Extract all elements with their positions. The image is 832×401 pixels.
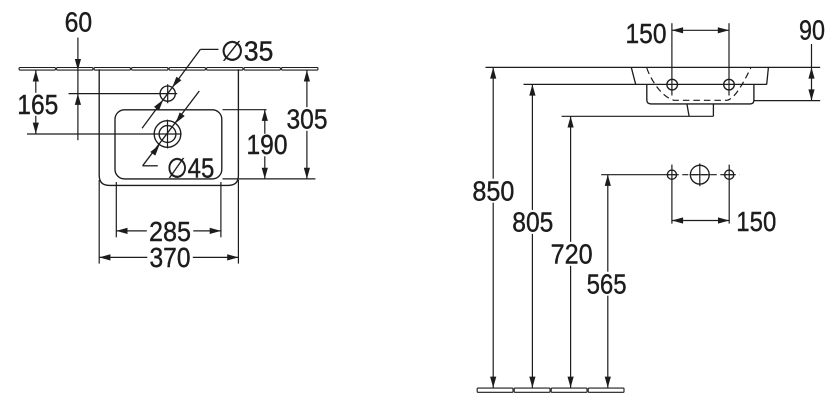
faucet hole center lines — [69, 93, 178, 95]
basin back face (side view) — [767, 67, 769, 84]
svg-text:850: 850 — [472, 176, 514, 207]
fixing hole right (side view) — [724, 79, 735, 90]
extension line for 90 (body bottom rear) — [754, 100, 820, 102]
extension line for 720 — [562, 115, 714, 117]
extension lines for dim 150 top — [671, 23, 673, 95]
dimension 565 — [607, 175, 609, 388]
washbasin outer outline (top view) — [99, 69, 238, 185]
extension line for 565 — [601, 174, 663, 176]
hidden bowl contour (dashed, side view) — [647, 68, 751, 100]
mounting holes group center line (dashed) — [663, 174, 739, 176]
svg-text:370: 370 — [150, 242, 191, 273]
dimension 190 (bowl depth) — [264, 110, 266, 179]
drain hole center lines — [27, 133, 182, 135]
faucet hole circle (top view) — [160, 86, 175, 101]
svg-text:305: 305 — [287, 104, 328, 135]
mounting hole right (front view) — [725, 170, 734, 179]
extension line bowl bottom for dims 190/305 — [223, 178, 316, 180]
svg-text:60: 60 — [65, 7, 93, 38]
basin body outline (side view) — [647, 84, 754, 104]
dimension 850 (rim height over floor) — [492, 67, 494, 387]
dimension 285 (bowl width) — [116, 230, 221, 232]
fixing hole left (side view) — [667, 79, 678, 90]
floor section line (tiled floor, side view) — [477, 388, 624, 392]
extension lines for dim 370 — [98, 180, 100, 264]
dimension 720 — [570, 116, 572, 388]
svg-text:190: 190 — [247, 129, 288, 160]
svg-text:805: 805 — [512, 207, 553, 238]
inner bowl outline (top view) — [115, 110, 222, 179]
dimension leader diameter 35 — [200, 48, 218, 50]
dimension leader diameter 45 — [143, 91, 200, 166]
svg-text:165: 165 — [17, 89, 58, 120]
basin front face (side view) — [631, 67, 635, 84]
dimension 150 (fixing holes distance, side view) — [672, 29, 729, 31]
mounting hole left (front view) — [667, 170, 676, 179]
dimension 165 (wall to drain center) — [35, 70, 37, 134]
svg-text:90: 90 — [799, 15, 825, 46]
dimension 150 (mounting holes distance, front view) — [672, 220, 729, 222]
extension lines for dim 150 bottom — [671, 165, 673, 224]
dimension 305 (total depth) — [306, 70, 308, 179]
svg-text:150: 150 — [736, 206, 776, 237]
extension line bowl top for dim 190 — [223, 109, 267, 111]
rim underside line / extension for 805 — [524, 83, 767, 85]
drain hole circles (top view) — [154, 121, 181, 148]
extension lines for dim 285 — [115, 182, 117, 237]
siphon cover (side view) — [687, 104, 689, 116]
wall section line (tiled wall, top view) — [19, 68, 318, 71]
drain center circle (front view) — [690, 165, 709, 184]
svg-text:720: 720 — [551, 239, 593, 270]
svg-text:565: 565 — [587, 268, 627, 299]
dimension 805 — [531, 84, 533, 387]
svg-text:∅35: ∅35 — [221, 36, 273, 67]
dimension 60 (wall to faucet hole) — [77, 38, 79, 141]
dimension 90 (rim height) — [811, 44, 813, 101]
rim top line (side view) / extension for 850 and 90 — [486, 66, 821, 68]
dimension 370 (total width) — [99, 256, 238, 258]
center cross ticks on mounting holes — [667, 174, 678, 176]
svg-text:∅45: ∅45 — [167, 152, 215, 183]
svg-text:150: 150 — [626, 18, 667, 49]
